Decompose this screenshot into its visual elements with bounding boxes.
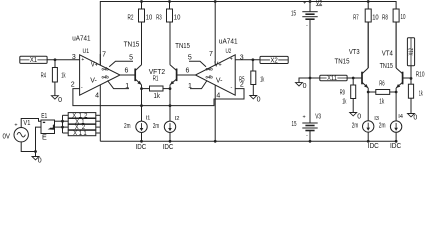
svg-text:4: 4 [95, 92, 99, 99]
svg-text:IDC: IDC [136, 144, 147, 151]
svg-text:+: + [81, 57, 84, 63]
svg-text:VT3: VT3 [349, 49, 360, 56]
svg-text:2m: 2m [379, 122, 386, 129]
svg-text:15: 15 [292, 121, 297, 128]
svg-text:1k: 1k [61, 73, 66, 80]
svg-text:I4: I4 [398, 114, 404, 120]
svg-text:5: 5 [188, 54, 192, 61]
svg-text:IDC: IDC [368, 143, 379, 150]
svg-text:V3: V3 [315, 113, 321, 120]
svg-text:0: 0 [58, 97, 62, 104]
svg-text:+: + [14, 123, 17, 129]
svg-text:+: + [303, 114, 306, 120]
svg-text:2m: 2m [153, 123, 159, 130]
svg-text:10: 10 [401, 14, 406, 21]
svg-text:IDC: IDC [390, 143, 401, 150]
svg-text:R7: R7 [353, 15, 359, 22]
svg-text:-: - [230, 84, 232, 90]
svg-text:X12: X12 [409, 48, 415, 56]
svg-text:R3: R3 [156, 15, 162, 22]
svg-text:R5: R5 [239, 77, 245, 84]
svg-text:TN15: TN15 [175, 43, 190, 50]
svg-text:10: 10 [146, 15, 153, 22]
svg-text:R10: R10 [416, 71, 425, 78]
svg-text:E: E [42, 134, 47, 141]
svg-text:o4b: o4b [102, 75, 109, 81]
svg-text:IDC: IDC [163, 144, 174, 151]
svg-text:R9: R9 [340, 89, 345, 96]
svg-text:5: 5 [129, 54, 133, 61]
svg-text:U2: U2 [226, 48, 232, 55]
svg-text:-: - [81, 84, 83, 90]
svg-text:4: 4 [216, 92, 220, 99]
svg-text:0: 0 [257, 97, 261, 104]
svg-text:I1: I1 [146, 116, 151, 122]
svg-text:uA741: uA741 [72, 35, 90, 42]
svg-text:o4b: o4b [206, 75, 213, 81]
svg-text:R1: R1 [153, 76, 159, 83]
svg-text:I3: I3 [374, 116, 379, 122]
svg-text:+: + [230, 56, 233, 62]
svg-text:2m: 2m [352, 122, 359, 129]
svg-text:X2: X2 [270, 57, 278, 64]
svg-text:R8: R8 [382, 15, 388, 22]
svg-text:0: 0 [413, 115, 417, 122]
svg-text:1k: 1k [154, 93, 161, 100]
svg-text:15: 15 [291, 10, 296, 17]
svg-text:+: + [303, 1, 306, 7]
svg-text:0: 0 [38, 158, 42, 165]
svg-text:U1: U1 [83, 48, 90, 55]
svg-text:R6: R6 [379, 80, 384, 87]
svg-text:1: 1 [125, 83, 129, 90]
svg-text:10: 10 [174, 15, 181, 22]
svg-text:uA741: uA741 [219, 39, 238, 46]
svg-text:X11: X11 [73, 131, 87, 137]
svg-text:6: 6 [186, 68, 190, 75]
svg-text:V-: V- [216, 78, 223, 85]
svg-text:o4b: o4b [102, 67, 109, 73]
svg-text:0: 0 [357, 113, 361, 120]
svg-text:1k: 1k [342, 99, 346, 106]
svg-text:V1: V1 [23, 120, 30, 127]
svg-text:TN15: TN15 [124, 41, 140, 48]
svg-text:X1: X1 [30, 57, 37, 64]
svg-text:1k: 1k [260, 77, 264, 84]
svg-text:X11: X11 [327, 76, 337, 82]
svg-text:10: 10 [372, 15, 379, 22]
svg-text:I2: I2 [175, 116, 180, 122]
svg-text:6: 6 [125, 68, 129, 75]
svg-text:TN15: TN15 [380, 63, 393, 70]
svg-text:7: 7 [102, 51, 106, 58]
svg-text:7: 7 [209, 51, 213, 58]
svg-text:TN15: TN15 [335, 58, 350, 65]
svg-text:R4: R4 [41, 73, 46, 80]
svg-text:1k: 1k [419, 91, 423, 98]
svg-text:V-: V- [90, 78, 97, 85]
svg-text:0: 0 [303, 83, 307, 90]
svg-text:2m: 2m [124, 123, 131, 130]
svg-text:VT4: VT4 [382, 50, 393, 57]
svg-text:R2: R2 [128, 15, 134, 22]
svg-text:0V: 0V [3, 133, 11, 140]
svg-text:V+: V+ [91, 61, 99, 68]
svg-text:1k: 1k [379, 98, 384, 105]
svg-text:3: 3 [240, 55, 244, 62]
svg-text:o4b: o4b [206, 67, 213, 73]
svg-text:1: 1 [188, 83, 192, 90]
svg-text:2: 2 [71, 82, 75, 89]
svg-text:E1: E1 [41, 113, 47, 120]
